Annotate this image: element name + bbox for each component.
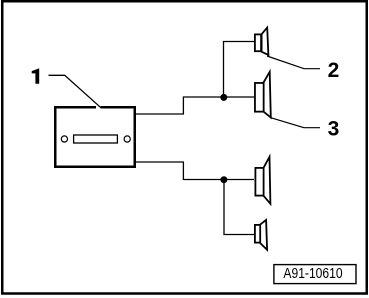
svg-text:A91-10610: A91-10610 (283, 266, 342, 282)
svg-text:3: 3 (328, 118, 340, 141)
svg-text:2: 2 (328, 59, 340, 82)
